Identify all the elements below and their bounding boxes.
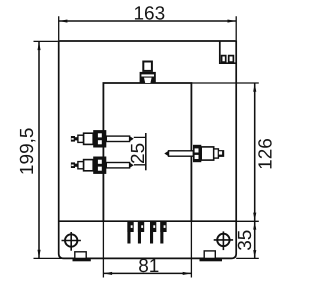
dimension 25 leader lines [134, 137, 146, 164]
left foot pad [73, 258, 91, 261]
dimension 35 line [254, 221, 256, 258]
base top line [59, 220, 237, 222]
dimension 163 line [59, 20, 237, 22]
device body outline [59, 41, 237, 258]
bottom pin P2 [138, 221, 144, 243]
svg-text:35: 35 [235, 230, 256, 251]
dimension 126 line [254, 83, 256, 221]
left mounting hole crosshair [62, 232, 81, 251]
right mounting hole crosshair [214, 231, 233, 250]
bottom pin P4 [160, 221, 166, 243]
dimension 81 line [103, 272, 191, 274]
dimension 126 arrows [253, 83, 256, 92]
svg-text:199,5: 199,5 [17, 128, 38, 176]
left connector J1 [71, 130, 134, 147]
dimension 163 extension lines [59, 16, 237, 40]
left foot tab [75, 252, 86, 259]
dimension 199,5 arrows [38, 42, 41, 51]
dimension 81 arrows [104, 272, 113, 275]
left connector J2 [71, 157, 134, 174]
dimension 35 extension line [236, 257, 259, 259]
dimension 199,5 line [38, 41, 40, 258]
svg-text:25: 25 [128, 143, 149, 164]
terminal screw S1 [222, 56, 226, 63]
svg-text:126: 126 [255, 138, 276, 170]
bottom pin P3 [150, 221, 156, 243]
top-right terminal box [220, 41, 236, 63]
dimension 81 extension lines [103, 221, 191, 277]
svg-text:163: 163 [133, 3, 165, 24]
dimension 163 arrows [59, 20, 68, 23]
right foot tab [204, 251, 215, 259]
terminal screw S2 [229, 56, 234, 63]
bottom pin P1 [127, 221, 133, 243]
right foot pad [200, 258, 223, 261]
dimension 25 line [145, 133, 147, 170]
right connector J3 [164, 145, 224, 162]
dimension 126 extension lines [191, 83, 258, 221]
window rectangle [103, 83, 191, 221]
top terminal [140, 62, 156, 84]
svg-text:81: 81 [138, 256, 159, 277]
dimension 35 arrows [253, 222, 256, 230]
dimension 199,5 extension lines [34, 41, 64, 258]
